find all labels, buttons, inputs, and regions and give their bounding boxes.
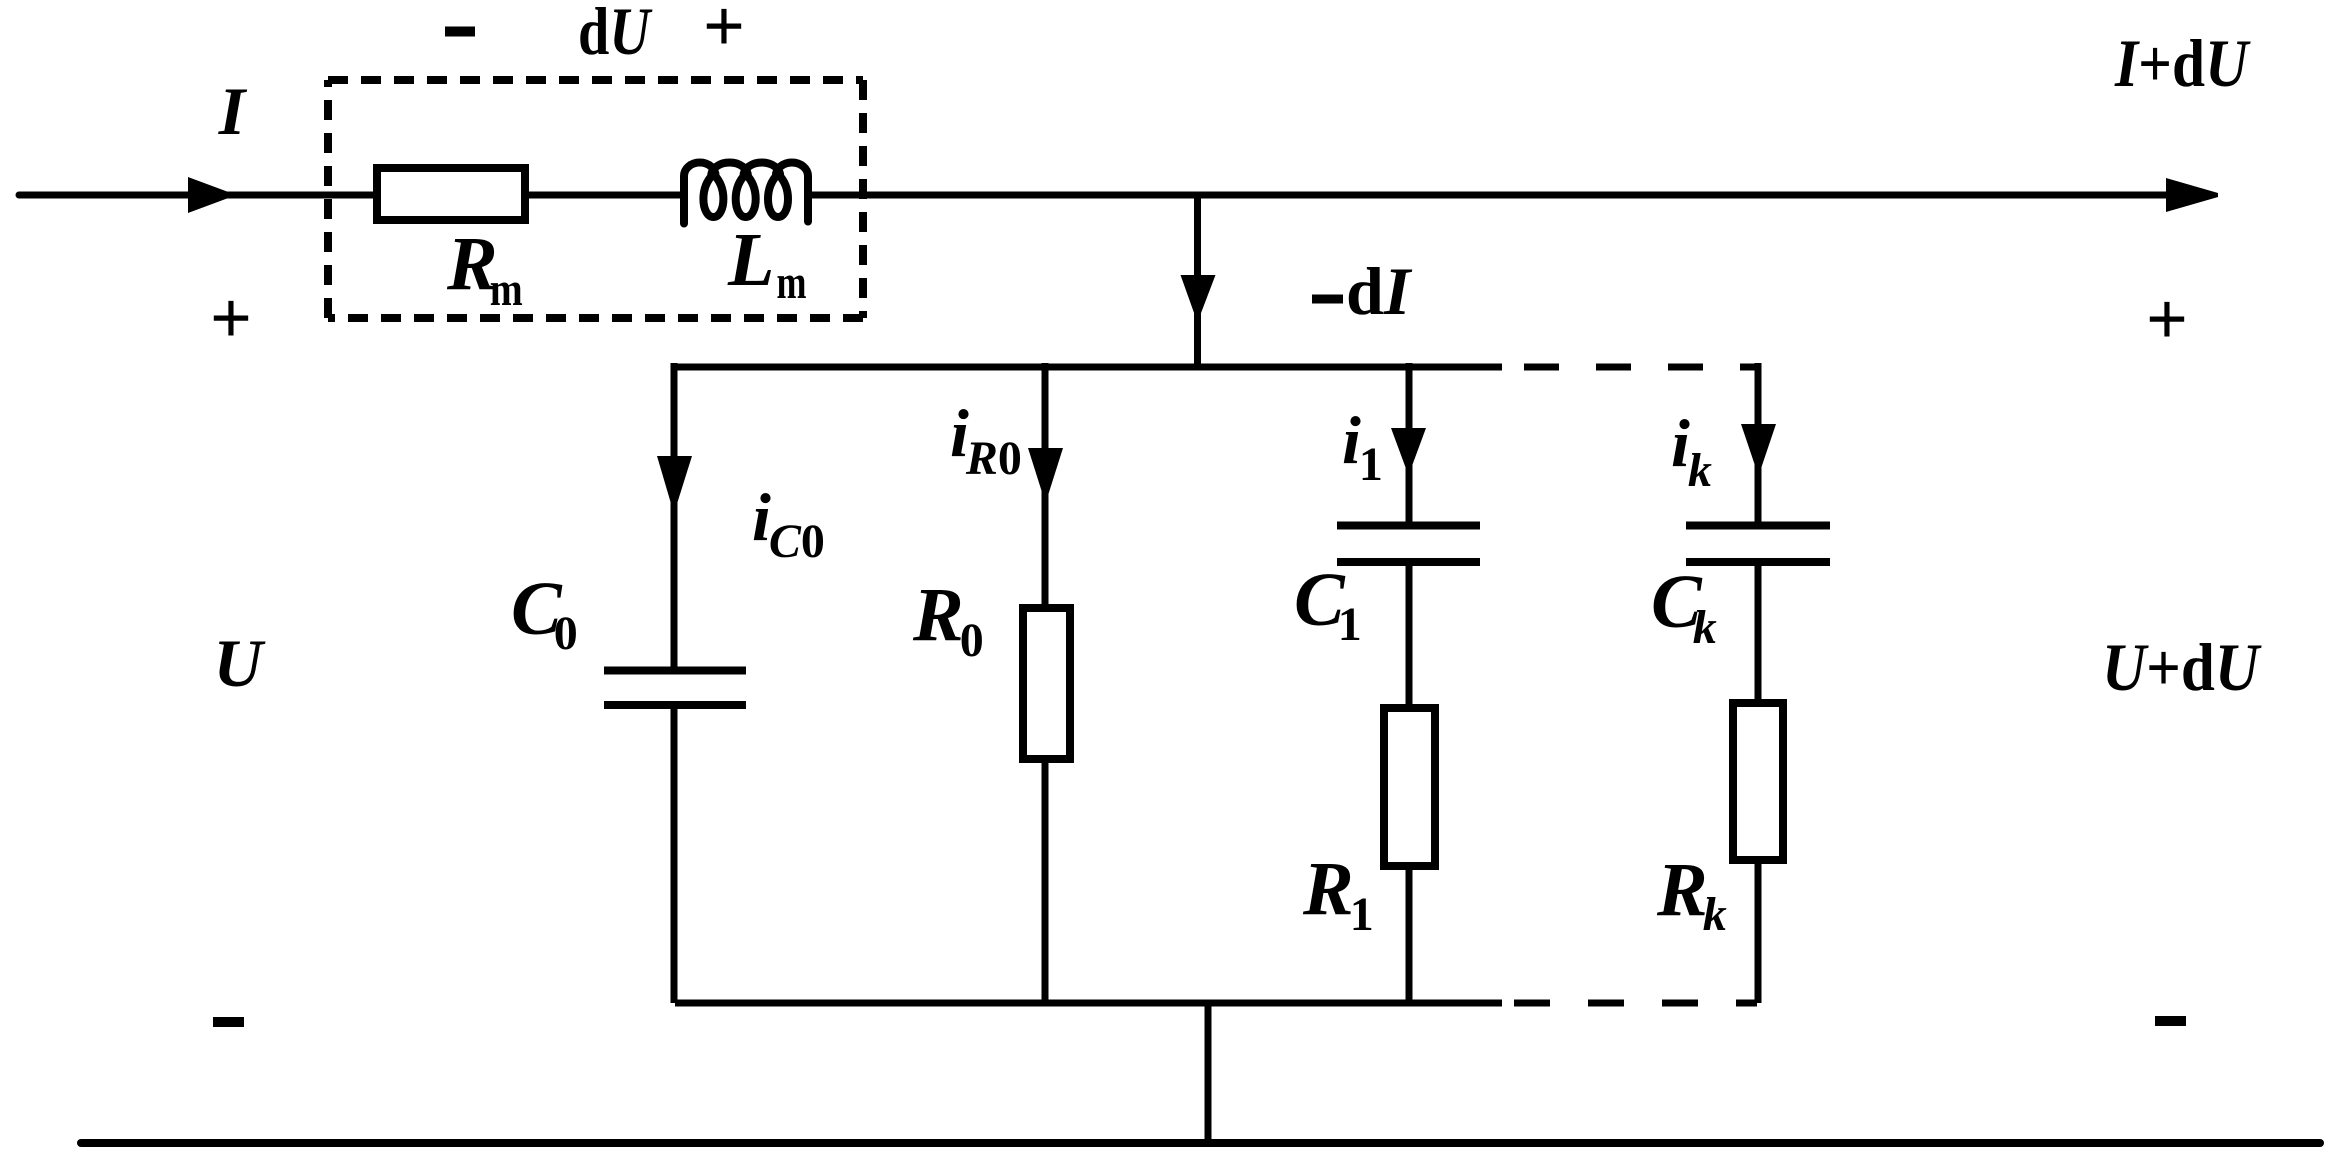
wire bottom bus dashed (1514, 1000, 1757, 1007)
wire R0 branch upper (1042, 363, 1049, 608)
label minus of -dI (1312, 295, 1343, 304)
label minus bottom right (2155, 1016, 2186, 1026)
wire R0 branch lower (1042, 759, 1049, 1003)
capacitor C0 plate top (604, 667, 746, 675)
wire Rk lower (1755, 860, 1762, 1003)
dashed series-impedance box (328, 76, 863, 84)
arrow i1 (1391, 428, 1426, 470)
capacitor C1 plate top (1337, 522, 1480, 530)
svg-text:I: I (218, 73, 248, 149)
inductor Lm (684, 162, 808, 223)
resistor R1 (1384, 708, 1435, 866)
arrow current I on top wire (188, 177, 231, 213)
resistor Rk (1733, 703, 1783, 860)
resistor R0 (1023, 608, 1070, 759)
arrow ik (1741, 424, 1776, 470)
arrow at right end of top wire (2166, 178, 2218, 212)
svg-text:dU: dU (578, 0, 653, 69)
wire top bus dashed (1524, 364, 1757, 371)
wire shunt feed vertical (1194, 195, 1201, 367)
svg-text:I+dU: I+dU (2114, 25, 2251, 101)
capacitor Ck plate top (1686, 522, 1830, 530)
wire top conductor right segment (808, 192, 2172, 199)
capacitor C1 plate bottom (1337, 558, 1480, 566)
wire bottom return conductor (81, 1139, 2320, 1147)
wire CkRk branch upper (1755, 363, 1762, 522)
wire top conductor left segment (19, 192, 684, 199)
arrow iC0 (657, 456, 692, 507)
svg-text:+: + (703, 0, 745, 68)
wire C0 branch lower (671, 705, 678, 1003)
label minus above dU (445, 27, 475, 37)
svg-text:U+dU: U+dU (2102, 629, 2262, 705)
arrow iR0 (1028, 448, 1063, 497)
wire C1-R1 middle (1406, 562, 1413, 708)
svg-text:U: U (213, 625, 266, 701)
wire C0 branch upper (671, 363, 678, 667)
wire top bus solid (672, 364, 1502, 371)
wire R1 lower (1406, 866, 1413, 1003)
arrow -dI on feed (1181, 275, 1216, 317)
capacitor Ck plate bottom (1686, 558, 1830, 566)
label minus bottom left (213, 1017, 244, 1027)
wire bottom bus solid (675, 1000, 1502, 1007)
svg-text:+: + (2146, 279, 2188, 361)
svg-text:+: + (210, 278, 252, 360)
resistor Rm (377, 168, 525, 220)
wire return feed vertical (1205, 1003, 1212, 1143)
wire C1R1 branch upper (1406, 363, 1413, 522)
wire Ck-Rk middle (1755, 562, 1762, 703)
svg-text:dI: dI (1346, 253, 1413, 329)
capacitor C0 plate bottom (604, 701, 746, 709)
